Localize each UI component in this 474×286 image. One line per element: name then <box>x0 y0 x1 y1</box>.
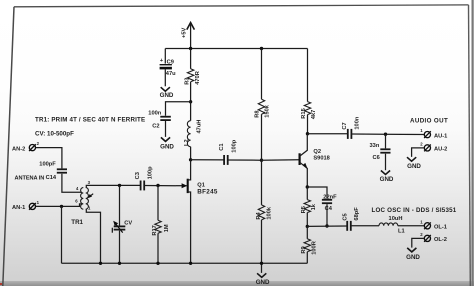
wire AN-1 node down to rail <box>61 206 63 263</box>
capacitor C7 <box>342 116 361 139</box>
node R17 rail <box>156 262 159 265</box>
svg-text:AUDIO OUT: AUDIO OUT <box>410 117 448 124</box>
ground under C2 <box>160 137 174 150</box>
svg-text:GND: GND <box>160 143 174 150</box>
svg-text:3: 3 <box>88 180 91 185</box>
svg-text:10uH: 10uH <box>389 216 403 222</box>
wire C9 to ground <box>164 69 166 86</box>
resistor R4 <box>256 160 272 263</box>
svg-text:C9: C9 <box>167 59 174 65</box>
capacitor C6 <box>370 134 391 161</box>
ground under AU-2 <box>407 157 421 170</box>
wire R15 to C7 <box>308 133 348 135</box>
svg-text:4k7: 4k7 <box>311 110 317 120</box>
node C6 tap <box>384 133 387 136</box>
svg-text:C3: C3 <box>135 172 141 179</box>
svg-text:2: 2 <box>37 141 40 146</box>
svg-text:CV: CV <box>124 221 132 227</box>
inductor L2 <box>184 102 203 160</box>
svg-text:R4: R4 <box>256 211 262 219</box>
svg-text:33n: 33n <box>370 143 380 149</box>
svg-text:150k: 150k <box>265 104 271 117</box>
node rail R4 <box>260 262 263 265</box>
svg-text:GND: GND <box>406 254 420 261</box>
svg-text:GND: GND <box>407 163 421 170</box>
wire L1 to OL-1 <box>398 225 424 227</box>
node R15/C7/collector <box>306 132 309 135</box>
svg-text:100k: 100k <box>266 206 272 219</box>
svg-text:R17: R17 <box>152 225 158 235</box>
ground under C9 <box>160 87 174 99</box>
wire emitter to C4 <box>307 187 327 199</box>
capacitor C9 <box>160 58 177 77</box>
variable capacitor CV <box>112 185 132 263</box>
wire node to C1 <box>191 159 224 161</box>
svg-text:6: 6 <box>75 198 78 203</box>
wire C7 to AU-1 <box>352 133 424 136</box>
ground at bottom rail <box>256 263 270 286</box>
ground under C6 <box>380 171 394 184</box>
wire C5 to L1 <box>351 225 379 227</box>
terminal OL-2 <box>420 232 447 243</box>
svg-text:S9018: S9018 <box>313 156 329 162</box>
node R8 rail junction <box>260 47 263 50</box>
node R17 tap <box>156 184 159 187</box>
svg-text:L2: L2 <box>184 139 190 146</box>
svg-text:68pF: 68pF <box>354 207 360 221</box>
svg-text:C7: C7 <box>342 122 348 129</box>
transistor Q2 <box>300 134 330 187</box>
svg-text:47u: 47u <box>166 71 176 77</box>
wire top rail <box>165 48 307 50</box>
svg-text:GND: GND <box>160 92 174 99</box>
svg-text:2: 2 <box>420 141 423 146</box>
wire OL-2 to ground <box>412 238 424 247</box>
svg-text:2: 2 <box>420 232 423 237</box>
svg-text:1k: 1k <box>311 203 317 210</box>
ground under OL-2 <box>406 248 420 261</box>
svg-text:C14: C14 <box>46 175 57 181</box>
svg-text:470R: 470R <box>195 71 201 85</box>
terminal AN-2 <box>12 141 40 152</box>
svg-text:47uH: 47uH <box>196 120 202 134</box>
svg-text:1: 1 <box>88 205 91 210</box>
svg-text:OL-1: OL-1 <box>434 225 447 231</box>
node +5V rail junction <box>189 47 192 50</box>
svg-text:C5: C5 <box>342 213 348 220</box>
svg-text:+5V: +5V <box>182 28 188 38</box>
svg-text:100p: 100p <box>232 139 238 152</box>
wire C4 to lower rail <box>326 204 328 226</box>
svg-text:C1: C1 <box>219 143 225 150</box>
terminal AN-1 <box>12 200 40 211</box>
svg-text:100R: 100R <box>312 241 318 255</box>
wire C14 to TR1 pin4 <box>62 174 82 193</box>
svg-text:R3: R3 <box>184 78 190 85</box>
terminal OL-1 <box>420 219 447 230</box>
resistor R8 <box>255 49 271 161</box>
wire AN-1 to TR1 pin6 <box>36 204 82 207</box>
svg-text:100p: 100p <box>148 166 154 179</box>
wire C9 branch <box>164 49 166 64</box>
node AN-1 ground branch <box>60 205 63 208</box>
transformer TR1 <box>71 180 93 226</box>
inductor L1 <box>379 216 405 234</box>
wire C1 to base node <box>228 159 262 161</box>
svg-text:R9: R9 <box>301 246 307 253</box>
svg-text:TR1: PRIM 4T / SEC 40T N FERRI: TR1: PRIM 4T / SEC 40T N FERRITE <box>35 117 145 124</box>
svg-text:AN-1: AN-1 <box>12 205 25 211</box>
node Q1 source rail <box>189 262 192 265</box>
wire to C2 <box>166 102 191 116</box>
svg-text:GND: GND <box>380 176 394 183</box>
svg-text:AU-1: AU-1 <box>434 133 447 139</box>
power +5V <box>182 23 195 49</box>
node Q2 emitter junction <box>306 185 309 188</box>
svg-text:+: + <box>160 58 164 64</box>
svg-text:LOC OSC IN - DDS / SI5351: LOC OSC IN - DDS / SI5351 <box>372 207 457 214</box>
svg-text:Q2: Q2 <box>313 149 321 155</box>
terminal AU-2 <box>420 141 447 152</box>
wire TR1 pin3 to gate line <box>86 185 90 187</box>
resistor R5 <box>301 187 317 226</box>
wire AN-2 to C14 <box>36 148 62 169</box>
svg-text:AN-2: AN-2 <box>12 146 25 152</box>
wire gate line right segment <box>144 185 176 187</box>
wire C6 to ground <box>385 154 387 171</box>
svg-text:100n: 100n <box>355 116 361 129</box>
svg-text:22nF: 22nF <box>323 194 337 200</box>
node C4 bottom <box>325 224 328 227</box>
svg-text:1M: 1M <box>164 224 170 232</box>
node R5/R9/LO wire <box>306 225 309 228</box>
capacitor C2 <box>148 111 171 130</box>
svg-text:100pF: 100pF <box>39 161 56 167</box>
svg-text:AU-2: AU-2 <box>434 147 447 153</box>
node R3/C2/L2 <box>189 100 192 103</box>
svg-text:BF245: BF245 <box>197 188 218 195</box>
svg-text:ANTENA IN: ANTENA IN <box>15 176 45 182</box>
svg-text:CV: 10-500pF: CV: 10-500pF <box>35 131 74 138</box>
resistor R3 <box>184 49 201 102</box>
capacitor C3 <box>135 166 154 190</box>
transistor Q1 <box>176 160 218 263</box>
svg-text:C4: C4 <box>325 206 333 212</box>
resistor R17 <box>152 186 170 264</box>
resistor R15 <box>301 49 317 134</box>
wire LO line <box>307 225 347 227</box>
svg-text:R8: R8 <box>255 110 261 117</box>
wire C2 to ground <box>165 121 167 137</box>
svg-text:4: 4 <box>76 186 79 191</box>
svg-text:L1: L1 <box>398 228 405 234</box>
svg-text:R5: R5 <box>301 206 307 213</box>
svg-text:GND: GND <box>256 279 270 286</box>
resistor R9 <box>301 226 317 263</box>
node CV tap <box>118 184 121 187</box>
wire TR1 pin1 down to rail <box>86 209 100 263</box>
wire bottom rail <box>62 262 308 264</box>
svg-text:1: 1 <box>420 219 423 224</box>
svg-text:C2: C2 <box>152 123 159 129</box>
capacitor C14 <box>39 161 67 172</box>
node C1/R8/R4/base <box>260 159 263 162</box>
node TR1 pin1 rail <box>99 262 102 265</box>
wire gate line left segment <box>90 184 140 186</box>
svg-text:100n: 100n <box>148 111 161 117</box>
svg-text:TR1: TR1 <box>71 219 83 226</box>
capacitor C5 <box>342 207 360 231</box>
node L2/Q1 drain/C1 <box>189 158 192 161</box>
wire AU-2 to ground <box>412 148 425 157</box>
svg-text:1: 1 <box>420 128 423 133</box>
capacitor C4 <box>322 194 337 212</box>
capacitor C1 <box>219 139 237 165</box>
terminal AU-1 <box>420 128 447 139</box>
svg-text:C6: C6 <box>373 155 380 161</box>
svg-text:1: 1 <box>37 200 40 205</box>
wire base node to Q2 <box>262 159 299 162</box>
node CV rail <box>118 262 121 265</box>
svg-text:OL-2: OL-2 <box>434 237 447 243</box>
svg-text:R15: R15 <box>301 108 307 118</box>
